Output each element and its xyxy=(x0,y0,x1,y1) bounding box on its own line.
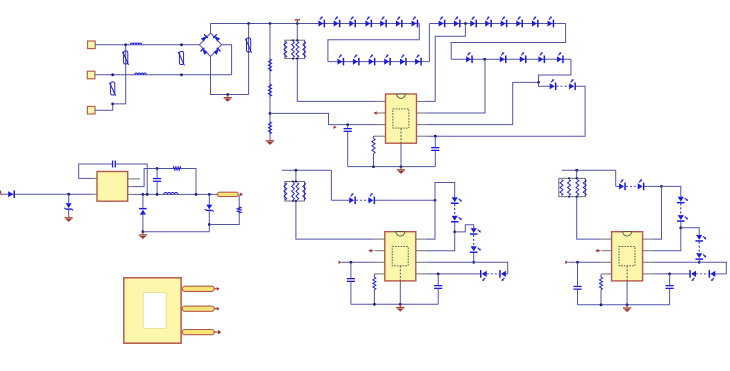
resistor network RN1 box xyxy=(285,40,305,58)
ground GND2 xyxy=(269,138,271,141)
node junction ground leg xyxy=(142,230,145,233)
ground GND xyxy=(399,304,401,307)
ground GND3 xyxy=(400,167,402,170)
IC pin 2 no-connect arrow xyxy=(368,249,371,253)
node junction wire2-varistor RV2 xyxy=(180,73,183,76)
node junction wire1-varistor RV1 xyxy=(124,43,127,46)
LED DE xyxy=(471,228,477,233)
resistor divider leg wire xyxy=(269,24,271,138)
LED D13 xyxy=(415,59,420,65)
resistor R1 xyxy=(268,59,271,71)
IC ground pin wire xyxy=(399,281,401,304)
node junction C bypass xyxy=(350,261,353,264)
ground GND5 xyxy=(142,232,144,235)
capacitor Ca xyxy=(350,262,352,278)
ground GND1 xyxy=(227,95,229,98)
node junction rail-IC xyxy=(626,303,629,306)
connector J1 pin 2 xyxy=(87,71,95,79)
capacitor Ca xyxy=(577,262,579,286)
LED DD xyxy=(452,216,458,221)
LED DG xyxy=(689,270,691,278)
varistor RV4 xyxy=(247,38,251,52)
node junction chain tap xyxy=(679,226,682,229)
LED DH xyxy=(709,270,711,278)
node junction C bypass xyxy=(576,261,579,264)
LED DF xyxy=(471,246,477,251)
T1 pin upper-right stub xyxy=(128,178,140,180)
wire bridge top to DC rail xyxy=(210,24,212,34)
resistor R4 leg xyxy=(374,135,376,137)
node junction C4 bottom xyxy=(156,193,159,196)
resistor network box xyxy=(559,178,586,196)
ground GND xyxy=(626,305,628,308)
wire row to LED chain xyxy=(662,186,681,196)
node junction rail-RN1 xyxy=(296,22,299,25)
wire chain step xyxy=(681,228,699,235)
wire row to LED chain xyxy=(435,183,455,201)
T1 pin lower-left xyxy=(92,193,97,195)
U1 ground pin wire xyxy=(400,143,402,166)
node junction row2b tap xyxy=(483,58,486,61)
node junction rail-Rs xyxy=(600,303,603,306)
LED DE xyxy=(696,235,702,240)
node junction D31 xyxy=(142,193,145,196)
LED D25 xyxy=(538,56,543,62)
node junction cap tap xyxy=(437,273,440,276)
package lead pin 3 port arrow xyxy=(214,331,218,333)
IC ground pin wire xyxy=(626,281,628,305)
node junction feed-network xyxy=(575,169,578,172)
LED D2 xyxy=(334,20,339,26)
LED D18 xyxy=(501,20,506,26)
wire N line xyxy=(95,74,232,76)
transformer T1 body xyxy=(97,172,128,202)
LED D4 xyxy=(365,20,370,26)
chain dashed wire xyxy=(454,204,456,216)
LED D15 xyxy=(454,20,459,26)
capacitor Cb xyxy=(437,274,439,285)
secondary output wire xyxy=(135,193,218,195)
wire IC pin 7 row xyxy=(426,262,508,274)
LED D22 xyxy=(466,56,471,62)
LED D14 xyxy=(439,20,444,26)
wire feed to network xyxy=(576,170,578,178)
port tick input xyxy=(565,261,568,264)
node junction divider tap xyxy=(269,112,272,115)
power port VDC bar xyxy=(295,19,300,20)
node junction rail-RV4 xyxy=(247,22,250,25)
node junction rail-R divider xyxy=(269,22,272,25)
wire row to IC pin 5 xyxy=(653,186,662,239)
LED DB xyxy=(368,197,373,203)
LED pair return wire xyxy=(426,273,480,275)
channel feed wire xyxy=(282,169,332,171)
LED DB xyxy=(638,183,643,189)
DC+ rail wire xyxy=(211,23,420,25)
LED D3 xyxy=(349,20,354,26)
node junction C1 top xyxy=(346,123,349,126)
resistor R5 xyxy=(173,167,181,170)
capacitor C3 xyxy=(112,161,113,168)
wire RN1 to U1 pin 1 xyxy=(297,59,375,102)
package lead pin 2 port arrow xyxy=(214,308,217,310)
LED D27 xyxy=(550,83,555,89)
node junction sense wire xyxy=(208,223,211,226)
U1 pin 2 no-connect arrow xyxy=(373,111,376,115)
wire port to IC pin 3 xyxy=(568,261,601,263)
wire U1 pin 7 to pair row xyxy=(427,82,539,124)
LED D5 xyxy=(380,20,385,26)
channel feed wire xyxy=(562,169,616,171)
package lead pin 3 xyxy=(182,330,214,335)
wire row1 to row2 xyxy=(328,24,419,62)
LED DC xyxy=(678,197,684,202)
wire N to bridge right vertex xyxy=(222,45,232,75)
inductor L1 xyxy=(130,43,142,45)
capacitor C4 xyxy=(156,169,158,178)
node junction rail-U1 gnd xyxy=(400,165,403,168)
LED DA xyxy=(349,197,354,203)
LED pair return wire xyxy=(653,273,690,275)
bridge diode D-UL xyxy=(201,36,206,41)
LED D28 xyxy=(569,83,574,89)
varistor RV2 xyxy=(179,52,183,65)
LED DD xyxy=(678,215,684,220)
heatsink tab package body xyxy=(124,278,181,343)
wire chain tap to IC pin 6 xyxy=(653,228,681,251)
resistor R3 xyxy=(268,122,271,134)
node junction PE xyxy=(111,103,114,106)
inductor L2 xyxy=(135,73,146,75)
channel ground rail xyxy=(351,303,438,305)
LED D8 xyxy=(338,59,343,65)
op-amp U1 driver IC xyxy=(386,94,417,143)
wire PE line from pin3 xyxy=(95,104,113,110)
port tick on feedback wire xyxy=(334,126,337,129)
node junction chain tap xyxy=(453,231,456,234)
U1 local ground rail xyxy=(348,166,436,168)
LED row 1b wire xyxy=(429,23,565,25)
resistor network box xyxy=(285,182,305,202)
chain dashed wire xyxy=(680,203,682,215)
wire chain step xyxy=(455,225,474,232)
chain dashed wire 2 xyxy=(698,242,700,254)
diode D30 xyxy=(3,193,92,195)
node junction zener Z1 xyxy=(67,193,70,196)
node junction node A xyxy=(195,193,198,196)
return wire xyxy=(143,231,209,233)
channel ground rail xyxy=(578,304,670,306)
fuse F1 pill xyxy=(218,192,239,196)
resistor Rs xyxy=(373,277,376,290)
wire rail to RN1 xyxy=(296,24,298,41)
node junction cap tap xyxy=(668,273,671,276)
wire network to IC pin 1 xyxy=(577,197,602,239)
wire pair row xyxy=(539,82,550,86)
package lead pin 1 port arrow xyxy=(214,288,217,290)
inductor L3 xyxy=(164,193,178,195)
bridge diode D-LR xyxy=(213,50,218,55)
LED row 2 wire xyxy=(328,61,430,63)
wire PE to varistor RV1 leg xyxy=(113,45,126,104)
wire IC pin 7 row xyxy=(653,262,727,274)
LED D21 xyxy=(548,20,553,26)
capacitor Cb xyxy=(669,274,671,285)
wire U1 pin 5 to row1b tap xyxy=(427,24,466,102)
diode D31 freewheel xyxy=(142,194,144,208)
node junction chain bottom xyxy=(472,261,475,264)
wire divider tap to U1 pin 3 xyxy=(270,113,376,124)
LED row wire xyxy=(616,185,619,187)
LED D10 xyxy=(369,59,374,65)
T1 pin lower-right xyxy=(128,193,135,195)
node junction C4 top xyxy=(156,167,159,170)
package lead pin 2 xyxy=(182,306,214,311)
primary feedback loop wire xyxy=(79,164,112,178)
LED DA xyxy=(619,183,624,189)
LED row wire xyxy=(331,199,349,201)
zener Z1 xyxy=(68,194,70,203)
wire port to IC pin 3 xyxy=(342,261,375,263)
wire row2 up to row1b xyxy=(428,24,430,62)
node junction C3 leg xyxy=(146,193,149,196)
LED DG xyxy=(480,270,482,278)
LED D24 xyxy=(520,56,525,62)
node junction C2 top xyxy=(434,135,437,138)
LED D1 xyxy=(318,20,323,26)
wire pair row return to U1 pin 8 xyxy=(427,86,586,136)
wire feed to LED row xyxy=(615,170,617,186)
LED DH xyxy=(499,270,501,278)
LED D26 xyxy=(557,56,562,62)
wire U1 pin 6 to row2b tap xyxy=(427,59,486,113)
LED D16 xyxy=(470,20,475,26)
LED DC xyxy=(452,197,458,202)
LED D9 xyxy=(353,59,358,65)
node junction rail-IC xyxy=(399,303,402,306)
resistor Rs leg xyxy=(600,274,602,277)
sense wire xyxy=(209,213,239,225)
LED D17 xyxy=(485,20,490,26)
varistor RV4 leg xyxy=(248,24,250,95)
bridge diode D-UR xyxy=(215,36,220,41)
LED D11 xyxy=(384,59,389,65)
LED D23 xyxy=(500,56,505,62)
T1 pin mid-right xyxy=(128,186,133,188)
zener Z2 xyxy=(208,194,210,204)
LED DF xyxy=(696,253,702,258)
node junction feed-network xyxy=(295,169,298,172)
LED D19 xyxy=(516,20,521,26)
wire L line to bridge xyxy=(95,44,199,46)
bridge rectifier BR1 xyxy=(200,33,222,57)
connector J1 pin 1 xyxy=(88,41,96,49)
LED D12 xyxy=(400,59,405,65)
resistor Rs leg xyxy=(373,274,375,277)
wire row to IC pin 5 xyxy=(426,200,435,239)
connector J1 pin 3 xyxy=(87,106,95,114)
package hole xyxy=(143,293,166,329)
wire bridge bottom to ground bus xyxy=(211,57,249,95)
package lead pin 1 xyxy=(182,286,214,291)
node junction row1b tap xyxy=(464,22,467,25)
ground GND4 xyxy=(68,215,70,218)
varistor RV1 xyxy=(124,51,128,64)
LED D20 xyxy=(532,20,537,26)
wire row1b to row2b xyxy=(451,24,565,60)
wire feed to LED row xyxy=(330,170,332,200)
bridge diode D-LL xyxy=(202,50,207,55)
LED D7 xyxy=(412,20,417,26)
driver IC xyxy=(385,232,416,281)
node junction row end xyxy=(660,185,663,188)
resistor R2 xyxy=(268,84,271,96)
wire feed to network xyxy=(295,170,297,181)
secondary node A wire xyxy=(133,169,196,195)
resistor Rs xyxy=(600,277,603,290)
capacitor C1 xyxy=(347,125,349,128)
T1 pin upper-left xyxy=(92,177,97,179)
node junction zener Z2 xyxy=(208,193,211,196)
node junction chain bottom xyxy=(698,261,701,264)
port tick input xyxy=(339,261,342,264)
node junction ground bus xyxy=(226,93,229,96)
capacitor C2 xyxy=(434,136,436,147)
node junction wire2-varistor RV3 xyxy=(111,73,114,76)
node junction wire1-varistor RV2 xyxy=(180,43,183,46)
node junction row end xyxy=(434,199,437,202)
varistor RV3 xyxy=(111,82,115,95)
LED row 2b wire xyxy=(451,58,571,60)
input port tick xyxy=(0,191,2,195)
node junction rail-R4 xyxy=(372,165,375,168)
LED D6 xyxy=(396,20,401,26)
wire C3 to secondary xyxy=(116,164,147,194)
node junction pair row xyxy=(537,81,540,84)
wire row2b to pair row xyxy=(539,59,571,82)
driver IC xyxy=(612,232,643,281)
resistor R6 xyxy=(238,207,241,213)
wire chain tap to IC pin 6 xyxy=(426,232,455,251)
node junction rail-Rs xyxy=(373,303,376,306)
output port tick xyxy=(240,193,243,196)
wire network to IC pin 1 xyxy=(296,201,375,239)
IC pin 2 no-connect arrow xyxy=(595,249,598,253)
resistor R4 xyxy=(372,138,375,153)
chain dashed wire 2 xyxy=(473,235,475,247)
